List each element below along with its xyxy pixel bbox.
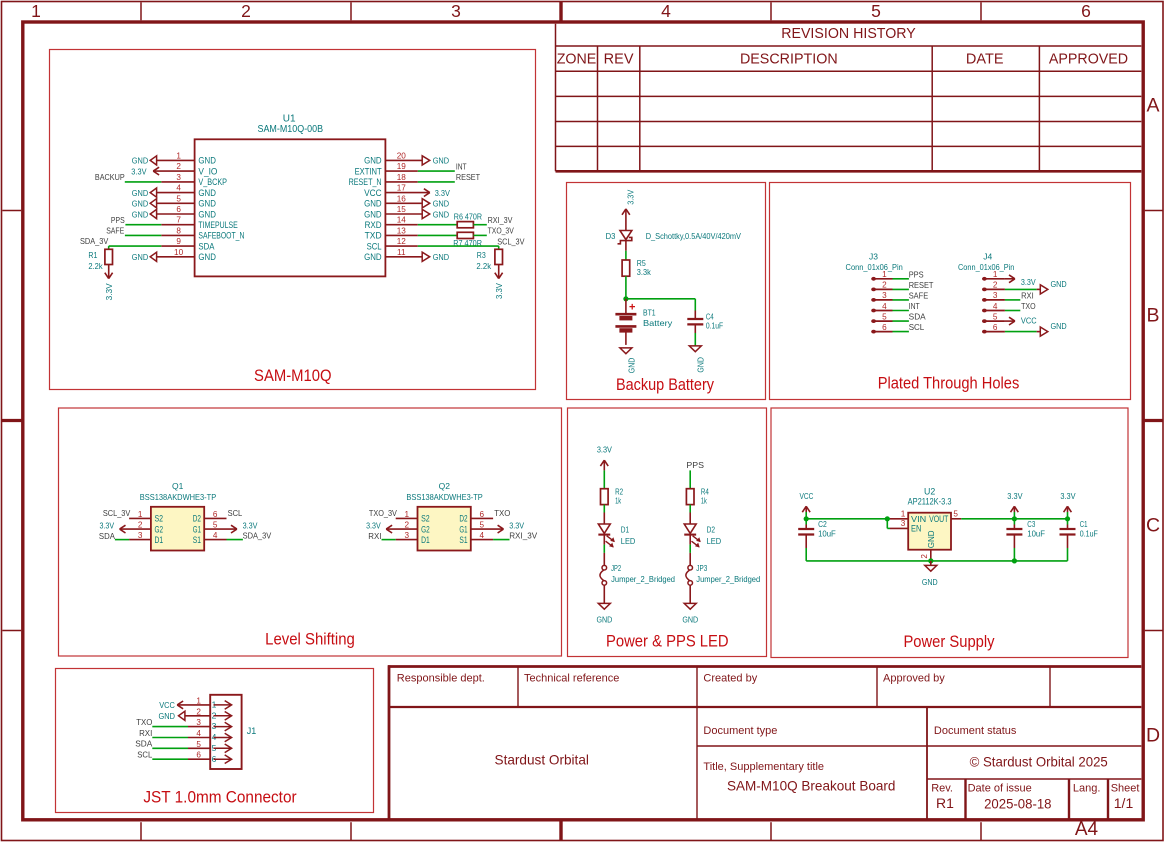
U1 pin 19 (EXTINT) with number — [355, 162, 418, 176]
power symbol GND below JP2 — [597, 603, 613, 624]
Q1 pin 5 (G1) — [193, 521, 237, 535]
jumper JP2 — [600, 565, 607, 585]
svg-text:7: 7 — [176, 216, 181, 225]
sheet number 1/1 — [1114, 795, 1134, 811]
svg-text:Date of issue: Date of issue — [968, 783, 1032, 795]
svg-text:16: 16 — [397, 194, 407, 203]
C4 value 0.1uF — [706, 321, 723, 331]
title block field captions — [397, 673, 1140, 795]
JST connector sheet box — [56, 669, 374, 813]
power symbol 3.3V at Q1 pin 2 — [100, 520, 126, 533]
Power & PPS LED sheet box — [568, 408, 767, 657]
Plated Through Holes sheet box — [770, 183, 1131, 400]
svg-text:GND: GND — [682, 615, 698, 625]
D2 value LED — [707, 536, 722, 546]
svg-text:3.3V: 3.3V — [626, 190, 636, 205]
svg-text:A: A — [1146, 95, 1159, 117]
Q2 value BSS138AKDWHE3-TP — [406, 492, 483, 502]
junction at C3 top — [1012, 516, 1017, 521]
resistor R2 — [601, 486, 624, 505]
J4 pin 4 with pad — [982, 302, 1005, 313]
svg-text:R3: R3 — [477, 250, 486, 260]
svg-text:0.1uF: 0.1uF — [1080, 528, 1098, 538]
wire SDA_3V to U1 pin 9 — [109, 245, 162, 247]
svg-text:1: 1 — [901, 510, 906, 519]
svg-text:SAM-M10Q: SAM-M10Q — [254, 367, 332, 385]
svg-text:SAFE: SAFE — [909, 291, 929, 300]
svg-text:4: 4 — [661, 1, 671, 21]
svg-text:D1: D1 — [155, 535, 164, 545]
svg-text:VCC: VCC — [159, 700, 175, 710]
svg-text:GND: GND — [132, 252, 148, 262]
wire J4 pin 3 to RXI — [1005, 299, 1020, 301]
svg-text:SAFEBOOT_N: SAFEBOOT_N — [198, 231, 244, 241]
J1 pin 5 — [196, 740, 231, 753]
svg-text:+: + — [629, 302, 635, 314]
junction above BT1 — [623, 296, 628, 301]
power symbol 3.3V at Q1 pin 5 — [231, 520, 258, 533]
wire PPS to U1 pin 7 — [125, 224, 161, 226]
wire J3 pin 2 to RESET — [893, 288, 909, 290]
svg-text:15: 15 — [397, 205, 407, 214]
wire BACKUP to U1 pin 3 — [125, 181, 162, 183]
C3 value 10uF — [1027, 528, 1045, 538]
power symbol 3.3V above C1 — [1060, 491, 1075, 519]
svg-text:3.3V: 3.3V — [366, 520, 381, 530]
svg-text:0.1uF: 0.1uF — [706, 321, 723, 331]
Q2 pin 1 (S2) — [396, 510, 430, 524]
Q1 pin 6 (D2) — [193, 510, 227, 524]
svg-text:J4: J4 — [983, 252, 992, 262]
U2 reference — [924, 487, 935, 497]
power symbol GND at U1 pin 20 — [422, 156, 449, 166]
power symbol 3.3V at U1 pin 2 — [131, 167, 159, 177]
svg-text:1: 1 — [882, 270, 887, 279]
svg-text:6: 6 — [882, 323, 887, 332]
svg-text:V_BCKP: V_BCKP — [198, 177, 227, 187]
wire junction to C4 — [626, 298, 695, 300]
svg-text:S2: S2 — [155, 514, 164, 524]
U1 pin 3 (V_BCKP) with number — [161, 173, 227, 187]
svg-text:SAFE: SAFE — [106, 227, 124, 236]
net label PPS above R4 — [686, 461, 704, 470]
svg-text:JP3: JP3 — [696, 563, 707, 573]
svg-text:1/1: 1/1 — [1114, 795, 1134, 811]
revision value R1 — [936, 795, 954, 811]
wire R2 to D1 — [603, 505, 605, 524]
wire U1 pin 13 to R7 — [418, 234, 457, 236]
svg-text:5: 5 — [993, 312, 998, 321]
transistor Q1 body — [151, 507, 204, 551]
Q2 pin 5 (G1) — [459, 521, 503, 535]
Q2 pin 3 (D1) — [396, 531, 430, 545]
junction at U2 GND — [928, 558, 933, 563]
svg-text:D3: D3 — [606, 231, 616, 241]
U1 pin 6 (GND) with number — [157, 205, 217, 219]
net label PPS at J3 — [909, 270, 924, 279]
svg-text:Conn_01x06_Pin: Conn_01x06_Pin — [958, 262, 1015, 272]
svg-text:RXI: RXI — [139, 729, 152, 738]
U1 pin 9 (SDA) with number — [161, 237, 214, 251]
resistor R6 — [454, 212, 482, 228]
svg-text:SCL_3V: SCL_3V — [497, 237, 525, 246]
net label RESET — [456, 173, 480, 182]
resistor R1 — [88, 246, 112, 271]
svg-text:19: 19 — [397, 162, 407, 171]
svg-text:INT: INT — [909, 302, 920, 311]
svg-text:3.3V: 3.3V — [1060, 491, 1075, 501]
net label RESET at J3 — [909, 281, 934, 290]
Q1 pin 2 (G2) — [120, 521, 164, 535]
wire SAFE to U1 pin 8 — [125, 234, 161, 236]
net label SDA_3V at Q1 pin 4 — [243, 532, 272, 541]
svg-text:G1: G1 — [459, 524, 467, 534]
connector J3 reference — [869, 252, 878, 262]
C4 reference — [706, 312, 714, 322]
svg-text:GND: GND — [364, 199, 382, 209]
svg-text:VCC: VCC — [364, 188, 382, 198]
svg-text:R1: R1 — [88, 250, 97, 260]
sheet title Plated Through Holes — [878, 375, 1020, 393]
svg-text:1: 1 — [176, 151, 181, 160]
svg-text:Sheet: Sheet — [1111, 783, 1140, 795]
U1 pin 10 (GND) with number — [157, 248, 217, 262]
svg-text:V_IO: V_IO — [198, 166, 217, 176]
J4 pin 6 with pad — [982, 323, 1005, 334]
Q1 pin 3 (D1) — [129, 531, 163, 545]
power symbol 3.3V at Q2 pin 2 — [366, 520, 392, 533]
net label RXI at J4 — [1021, 292, 1034, 301]
power symbol 3.3V above C3 — [1007, 491, 1022, 519]
revision table column headers — [557, 52, 1128, 68]
svg-text:5: 5 — [196, 740, 201, 749]
Q2 pin 4 (S1) — [459, 531, 493, 545]
svg-text:2: 2 — [882, 281, 887, 290]
svg-text:GND: GND — [696, 357, 706, 373]
svg-text:GND: GND — [1051, 279, 1067, 289]
D2 reference — [707, 525, 716, 535]
svg-text:3: 3 — [993, 291, 998, 300]
date of issue value — [984, 796, 1052, 812]
D1 reference — [621, 525, 630, 535]
C1 value 0.1uF — [1080, 528, 1098, 538]
svg-text:5: 5 — [480, 521, 485, 530]
svg-text:Power & PPS LED: Power & PPS LED — [606, 633, 729, 651]
U2 pin 1 VIN — [890, 510, 926, 524]
svg-text:PPS: PPS — [909, 270, 924, 279]
svg-text:Title, Supplementary title: Title, Supplementary title — [703, 761, 824, 773]
svg-text:1: 1 — [138, 510, 143, 519]
svg-text:3: 3 — [451, 1, 461, 21]
C2 reference — [818, 519, 827, 529]
svg-text:Power Supply: Power Supply — [903, 633, 995, 651]
svg-text:Conn_01x06_Pin: Conn_01x06_Pin — [846, 262, 904, 272]
svg-text:G2: G2 — [155, 524, 164, 534]
power symbol VCC at J1 pin 1 — [159, 700, 210, 710]
svg-text:3.3V: 3.3V — [1021, 277, 1036, 287]
svg-text:GND: GND — [364, 252, 382, 262]
svg-text:GND: GND — [433, 199, 449, 209]
svg-text:EXTINT: EXTINT — [355, 166, 382, 176]
svg-text:2: 2 — [405, 521, 410, 530]
svg-text:1: 1 — [31, 1, 41, 21]
C2 value 10uF — [818, 528, 836, 538]
transistor Q2 body — [418, 507, 471, 551]
svg-text:DESCRIPTION: DESCRIPTION — [740, 52, 838, 68]
net label TXO at Q2 pin 6 — [494, 509, 510, 518]
svg-text:ZONE: ZONE — [557, 52, 597, 68]
svg-text:SAM-M10Q Breakout Board: SAM-M10Q Breakout Board — [727, 778, 896, 794]
resistor R4 — [686, 486, 709, 505]
wire RXI to J1 pin 4 — [152, 737, 210, 739]
J3 value Conn_01x06_Pin — [846, 262, 904, 272]
power symbol GND at U1 pin 4 — [132, 188, 157, 198]
net label SCL at J3 — [909, 323, 925, 332]
capacitor C2 — [798, 519, 814, 548]
svg-text:4: 4 — [882, 302, 887, 311]
svg-text:GND: GND — [198, 209, 216, 219]
svg-text:Battery: Battery — [643, 318, 673, 328]
JP2 value Jumper_2_Bridged — [611, 574, 675, 584]
U1 pin 4 (GND) with number — [157, 184, 217, 198]
J4 pin 5 with pad — [982, 312, 1005, 323]
U2 pin 3 EN — [890, 519, 921, 533]
U1 pin 15 (GND) with number — [364, 205, 422, 219]
U1 pin 16 (GND) with number — [364, 194, 422, 208]
svg-text:1: 1 — [993, 270, 998, 279]
J3 pin 6 with pad — [871, 323, 892, 334]
svg-text:D2: D2 — [193, 514, 201, 524]
connector J1 body — [210, 695, 241, 769]
J1 reference — [247, 726, 257, 736]
U1 pin 5 (GND) with number — [157, 194, 217, 208]
svg-text:1k: 1k — [615, 495, 621, 505]
svg-text:2: 2 — [993, 281, 998, 290]
power symbol VCC at J4 pin 5 — [1005, 316, 1037, 326]
svg-text:GND: GND — [926, 530, 936, 548]
svg-text:GND: GND — [198, 156, 216, 166]
J4 value Conn_01x06_Pin — [958, 262, 1015, 272]
svg-text:BACKUP: BACKUP — [95, 173, 125, 182]
power symbol GND at J4 pin 2 — [1037, 279, 1067, 294]
svg-text:6: 6 — [993, 323, 998, 332]
svg-text:LED: LED — [621, 536, 636, 546]
net label SCL at J1 — [137, 751, 152, 760]
wire J4 pin 6 to GND — [1005, 331, 1037, 333]
net label BACKUP — [95, 173, 125, 182]
svg-text:U1: U1 — [283, 114, 296, 125]
svg-text:D_Schottky,0.5A/40V/420mV: D_Schottky,0.5A/40V/420mV — [646, 231, 742, 241]
wire J4 pin 2 to GND — [1005, 288, 1037, 290]
svg-text:D2: D2 — [707, 525, 716, 535]
sheet title Level Shifting — [265, 631, 355, 649]
svg-text:D2: D2 — [459, 514, 467, 524]
resistor R3 — [476, 249, 502, 271]
svg-text:SDA: SDA — [198, 241, 214, 251]
sheet title Backup Battery — [616, 376, 715, 394]
svg-text:J1: J1 — [247, 726, 257, 736]
J3 pin 4 with pad — [871, 302, 892, 313]
J4 pin 1 with pad — [982, 270, 1005, 281]
net label INT at J3 — [909, 302, 920, 311]
svg-text:SDA: SDA — [909, 313, 927, 322]
svg-text:RXD: RXD — [365, 220, 382, 230]
svg-text:Level Shifting: Level Shifting — [265, 631, 355, 649]
wire U1 pin 12 to R3 — [418, 246, 499, 249]
svg-text:A4: A4 — [1075, 819, 1099, 840]
net label TXO_3V at Q2 pin 1 — [369, 509, 397, 518]
resistor R5 — [622, 258, 651, 277]
J3 pin 5 with pad — [871, 312, 892, 323]
power symbol GND below C4 — [689, 346, 705, 373]
svg-text:12: 12 — [397, 237, 407, 246]
U1 pin 8 (SAFEBOOT_N) with number — [161, 226, 244, 240]
svg-text:VCC: VCC — [1021, 316, 1037, 326]
sheet title SAM-M10Q — [254, 367, 332, 385]
svg-text:RXI_3V: RXI_3V — [488, 216, 513, 225]
svg-text:2.2k: 2.2k — [88, 261, 103, 271]
svg-text:JST 1.0mm Connector: JST 1.0mm Connector — [143, 789, 297, 807]
svg-text:GND: GND — [198, 199, 216, 209]
svg-text:RXI: RXI — [368, 532, 381, 541]
svg-text:2: 2 — [920, 554, 929, 559]
BT1 reference — [643, 308, 656, 318]
power symbol GND at U1 pin 6 — [132, 209, 157, 219]
J3 pin 3 with pad — [871, 291, 892, 302]
power symbol GND at J4 pin 6 — [1037, 321, 1067, 336]
svg-text:5: 5 — [213, 521, 218, 530]
J4 pin 2 with pad — [982, 281, 1005, 292]
svg-text:GND: GND — [433, 209, 449, 219]
svg-text:R1: R1 — [936, 795, 954, 811]
net label RXI_3V at Q2 pin 4 — [509, 532, 538, 541]
svg-text:EN: EN — [911, 524, 921, 534]
svg-text:6: 6 — [176, 205, 181, 214]
capacitor C4 — [687, 299, 703, 333]
U1 pin 13 (TXD) with number — [365, 226, 418, 240]
wire PPS to R4 — [689, 470, 691, 488]
SAM-M10Q sheet box — [50, 50, 536, 390]
C3 reference — [1027, 519, 1035, 529]
wire C3 to bottom rail — [1013, 548, 1015, 561]
Power Supply sheet box — [771, 408, 1128, 658]
U1 value SAM-M10Q-00B — [258, 124, 324, 135]
U1 pin 14 (RXD) with number — [365, 216, 418, 230]
JP2 reference — [611, 563, 621, 573]
svg-text:BT1: BT1 — [643, 308, 656, 318]
svg-text:2: 2 — [138, 521, 143, 530]
svg-text:SDA_3V: SDA_3V — [80, 237, 109, 246]
power symbol GND below JP3 — [682, 603, 698, 624]
revision table heading REVISION HISTORY — [781, 26, 916, 42]
svg-text:B: B — [1146, 305, 1159, 327]
svg-text:3: 3 — [176, 173, 181, 182]
wire VOUT to 3.3V rail — [961, 518, 1067, 520]
wire R4 to D2 — [689, 505, 691, 524]
D3 value D_Schottky — [646, 231, 742, 241]
net label SDA at Q1 pin 3 — [99, 532, 116, 541]
bottom GND rail wire — [806, 560, 1067, 562]
C1 reference — [1080, 519, 1088, 529]
wire C4 to GND — [694, 333, 696, 346]
wire J3 pin 6 to SCL — [893, 331, 909, 333]
title block border — [388, 665, 1141, 820]
svg-text:SCL: SCL — [909, 323, 925, 332]
wire SCL to J1 pin 6 — [152, 758, 210, 760]
svg-text:VCC: VCC — [799, 491, 813, 501]
svg-text:SCL: SCL — [228, 509, 243, 518]
net label SCL_3V at Q1 pin 1 — [103, 509, 131, 518]
junction at VCC/C2 — [804, 516, 809, 521]
resistor R7 — [453, 232, 482, 248]
svg-text:GND: GND — [433, 252, 449, 262]
sheet title Power Supply — [903, 633, 995, 651]
wire Q2 pin 4 to RXI_3V — [493, 539, 509, 541]
junction at EN branch — [885, 516, 890, 521]
U1 pin 17 (VCC) with number — [364, 184, 430, 198]
svg-text:Approved by: Approved by — [883, 673, 945, 685]
net label RXI_3V — [488, 216, 513, 225]
JP3 reference — [696, 563, 707, 573]
wire J3 pin 1 to PPS — [893, 278, 909, 280]
U1 pin 1 (GND) with number — [157, 151, 217, 165]
svg-text:PPS: PPS — [111, 216, 125, 225]
svg-text:8: 8 — [176, 226, 181, 235]
J1 pin 6 — [196, 751, 231, 764]
svg-text:2.2k: 2.2k — [476, 261, 491, 271]
power symbol 3.3V at Q2 pin 5 — [498, 520, 525, 533]
svg-text:SCL_3V: SCL_3V — [103, 509, 131, 518]
svg-text:Created by: Created by — [703, 673, 757, 685]
sheet title Power & PPS LED — [606, 633, 729, 651]
svg-text:R6 470R: R6 470R — [454, 212, 482, 222]
svg-text:Jumper_2_Bridged: Jumper_2_Bridged — [696, 574, 760, 584]
svg-text:2: 2 — [196, 707, 201, 716]
svg-text:GND: GND — [132, 188, 148, 198]
svg-text:RESET: RESET — [456, 173, 480, 182]
Q1 reference — [172, 481, 184, 491]
net label RXI at Q2 pin 3 — [368, 532, 381, 541]
jumper JP3 — [686, 565, 693, 585]
svg-text:3: 3 — [901, 519, 906, 528]
BT1 value Battery — [643, 318, 673, 328]
U1 reference designator — [283, 114, 296, 125]
svg-text:GND: GND — [132, 209, 148, 219]
svg-text:3.3V: 3.3V — [1007, 491, 1022, 501]
U2 value AP2112K-3.3 — [908, 496, 952, 506]
capacitor C3 — [1006, 519, 1022, 548]
U2 pin 2 GND — [920, 530, 936, 561]
svg-text:SDA: SDA — [135, 740, 153, 749]
svg-text:Rev.: Rev. — [931, 783, 953, 795]
svg-text:S2: S2 — [421, 514, 430, 524]
net label SAFE at J3 — [909, 291, 929, 300]
junction at C1 top — [1065, 516, 1070, 521]
svg-text:TXD: TXD — [365, 231, 382, 241]
svg-text:13: 13 — [397, 226, 407, 235]
svg-text:J3: J3 — [869, 252, 878, 262]
Q2 reference — [439, 481, 451, 491]
svg-text:DATE: DATE — [966, 52, 1004, 68]
wire R6 to RXI_3V — [473, 224, 486, 226]
net label TXO at J1 — [136, 718, 152, 727]
svg-text:S1: S1 — [459, 535, 467, 545]
svg-text:GND: GND — [132, 199, 148, 209]
svg-text:Stardust Orbital: Stardust Orbital — [495, 752, 589, 768]
svg-text:2: 2 — [176, 162, 181, 171]
LED D2 — [684, 524, 701, 548]
svg-text:6: 6 — [480, 510, 485, 519]
